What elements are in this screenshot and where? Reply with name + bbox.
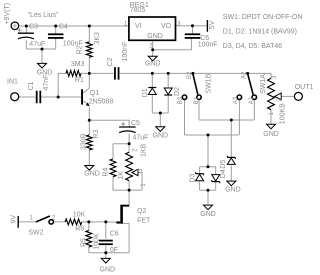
svg-text:FET: FET <box>137 217 151 224</box>
svg-text:C5: C5 <box>131 120 140 127</box>
svg-text:1: 1 <box>30 215 34 221</box>
svg-text:R5: R5 <box>81 238 88 247</box>
svg-text:100nF: 100nF <box>122 42 129 62</box>
svg-text:GND: GND <box>153 133 169 140</box>
svg-text:47uF: 47uF <box>29 41 45 48</box>
svg-text:D1, D2: 1N914 (BAV99): D1, D2: 1N914 (BAV99) <box>223 29 297 36</box>
svg-text:"Les Lius": "Les Lius" <box>28 12 60 19</box>
svg-text:2N5088: 2N5088 <box>89 98 114 105</box>
svg-text:A2: A2 <box>242 71 248 79</box>
svg-text:100nF: 100nF <box>198 42 218 49</box>
svg-text:0F: 0F <box>110 247 118 254</box>
svg-text:VI: VI <box>135 23 142 30</box>
svg-text:2: 2 <box>52 215 56 221</box>
svg-text:R6: R6 <box>75 226 84 233</box>
svg-text:GND: GND <box>200 211 216 218</box>
svg-text:1: 1 <box>124 22 128 28</box>
svg-text:C6: C6 <box>110 230 119 237</box>
svg-text:D5: D5 <box>220 160 227 169</box>
svg-text:3: 3 <box>177 22 181 28</box>
svg-text:B3: B3 <box>178 96 184 104</box>
svg-text:D2: D2 <box>174 87 181 96</box>
svg-text:SW1A: SW1A <box>260 74 267 94</box>
svg-text:C4: C4 <box>59 23 68 30</box>
svg-text:D1: D1 <box>142 88 149 97</box>
svg-text:7805: 7805 <box>130 7 146 14</box>
svg-text:SW2: SW2 <box>28 229 43 236</box>
svg-text:1: 1 <box>269 112 275 116</box>
svg-text:A1: A1 <box>249 96 255 104</box>
svg-text:GND: GND <box>147 33 163 40</box>
svg-text:100K: 100K <box>93 233 100 250</box>
svg-text:GND: GND <box>225 187 241 194</box>
svg-text:47uF: 47uF <box>133 134 149 141</box>
svg-text:VO: VO <box>161 23 172 30</box>
svg-text:1KB: 1KB <box>141 143 148 157</box>
svg-text:SW1B: SW1B <box>206 73 213 93</box>
svg-text:47nF: 47nF <box>43 75 50 91</box>
svg-text:1K: 1K <box>118 171 125 180</box>
svg-text:3M3: 3M3 <box>71 61 85 68</box>
svg-text:GND: GND <box>263 131 279 138</box>
svg-text:GND: GND <box>145 60 161 67</box>
svg-text:R2: R2 <box>77 45 84 54</box>
svg-text:IN1: IN1 <box>7 79 18 86</box>
svg-text:D4: D4 <box>220 169 227 178</box>
svg-text:C2: C2 <box>107 57 114 66</box>
svg-text:GND: GND <box>37 70 53 77</box>
svg-text:B2: B2 <box>187 71 193 79</box>
svg-text:A3: A3 <box>233 96 239 104</box>
svg-text:Q1: Q1 <box>90 90 99 97</box>
svg-text:C3: C3 <box>29 23 38 30</box>
svg-text:R4: R4 <box>103 167 110 176</box>
svg-text:100KB: 100KB <box>280 103 287 124</box>
svg-text:SW1: DPDT ON-OFF-ON: SW1: DPDT ON-OFF-ON <box>223 14 303 21</box>
svg-text:Q2: Q2 <box>137 208 146 215</box>
svg-text:3: 3 <box>138 168 144 172</box>
svg-text:3K3: 3K3 <box>94 32 101 45</box>
svg-text:R3: R3 <box>93 130 100 139</box>
svg-text:3: 3 <box>272 75 278 79</box>
svg-text:B1: B1 <box>194 96 200 104</box>
svg-text:5V: 5V <box>209 20 216 29</box>
svg-text:D3: D3 <box>189 174 196 183</box>
svg-text:C1: C1 <box>28 81 35 90</box>
svg-text:2: 2 <box>132 148 138 152</box>
svg-text:330R: 330R <box>80 133 87 150</box>
svg-text:R1: R1 <box>75 77 84 84</box>
svg-text:9V: 9V <box>11 215 18 224</box>
svg-text:+9V(T): +9V(T) <box>4 3 11 25</box>
svg-text:GND: GND <box>84 171 100 178</box>
svg-text:10K: 10K <box>73 211 86 218</box>
svg-text:OUT1: OUT1 <box>295 84 314 91</box>
svg-text:D3, D4, D5: BAT46: D3, D4, D5: BAT46 <box>223 43 283 50</box>
svg-text:GND: GND <box>100 267 116 274</box>
